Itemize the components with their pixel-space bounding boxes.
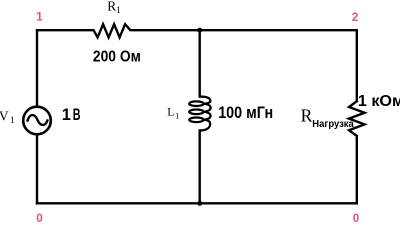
svg-text:1: 1 [62,106,71,124]
svg-text:0: 0 [36,213,42,224]
svg-text:2: 2 [352,12,358,24]
svg-text:0: 0 [353,213,359,224]
svg-text:1: 1 [36,12,43,24]
svg-text:1 кОм: 1 кОм [358,93,400,110]
svg-text:100 мГн: 100 мГн [218,104,273,122]
svg-text:200 Ом: 200 Ом [93,49,141,66]
svg-text:В: В [73,106,81,124]
svg-text:R: R [301,106,313,126]
svg-text:Нагрузка: Нагрузка [312,119,354,130]
